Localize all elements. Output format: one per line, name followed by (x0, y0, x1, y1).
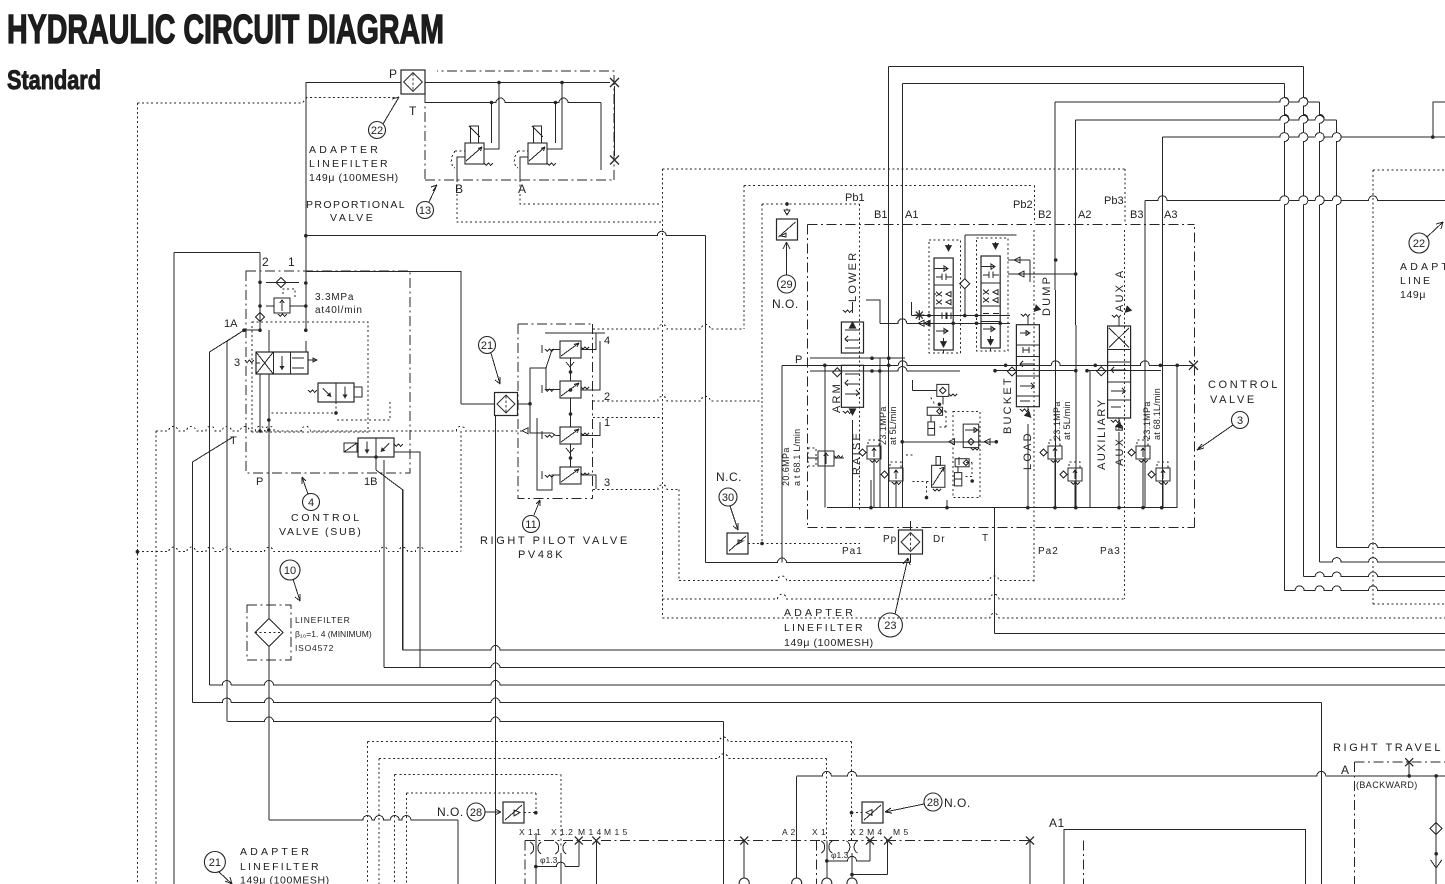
pilot supply wire (460, 271, 462, 404)
svg-text:22: 22 (1413, 238, 1425, 250)
svg-text:30: 30 (722, 492, 734, 504)
mid rail wire (902, 441, 996, 443)
svg-text:X 1: X 1 (812, 827, 826, 837)
node junction dot (785, 202, 789, 206)
svg-text:LINEFILTER: LINEFILTER (309, 158, 390, 170)
plug X top (610, 78, 619, 87)
ARM spool (841, 365, 863, 416)
leader 29 (783, 242, 790, 275)
leader 4 (302, 477, 308, 494)
svg-text:B3: B3 (1130, 209, 1143, 221)
solenoid valve 29 N.O. (777, 219, 798, 240)
svg-text:149μ (100MESH): 149μ (100MESH) (240, 875, 330, 884)
proportional solenoid valve B (451, 126, 493, 168)
svg-text:HYDRAULIC CIRCUIT DIAGRAM: HYDRAULIC CIRCUIT DIAGRAM (7, 6, 444, 52)
svg-text:X 1.1: X 1.1 (519, 827, 541, 837)
wire N.C. pilot (dashed) (748, 543, 762, 545)
svg-text:Pb1: Pb1 (845, 192, 865, 204)
wire A2 (1075, 120, 1077, 325)
svg-text:23.1MPa: 23.1MPa (1052, 401, 1062, 440)
left dotted rails (136, 103, 138, 884)
manifold X2 to M5 (851, 853, 853, 878)
plug X right (610, 156, 619, 165)
svg-text:4: 4 (308, 497, 314, 509)
wire BUCKET AUX column verticals (1089, 371, 1091, 508)
wire spool mid connect (dashed) (269, 402, 336, 413)
svg-text:VALVE: VALVE (1210, 394, 1257, 406)
wire valve B ports (484, 83, 499, 150)
leader 30 (730, 506, 738, 530)
throttle asterisk (914, 310, 924, 320)
svg-text:RIGHT PILOT VALVE: RIGHT PILOT VALVE (480, 535, 630, 547)
wire ARM column verticals (824, 365, 826, 507)
bus wire y667 (384, 663, 1445, 668)
svg-text:A: A (518, 182, 526, 196)
svg-text:Pa2: Pa2 (1038, 546, 1059, 557)
svg-text:Pp: Pp (883, 534, 897, 545)
svg-text:at 5L/min: at 5L/min (888, 406, 898, 445)
mid dotted box (953, 412, 980, 498)
arrow travel (1431, 860, 1442, 868)
svg-text:149μ: 149μ (1400, 289, 1426, 301)
callout circle 23 (878, 613, 902, 637)
svg-text:23: 23 (884, 620, 896, 632)
wire spool bottoms (853, 420, 1120, 508)
callout circle 28 right (924, 793, 942, 811)
pilot ports frame (596, 332, 605, 334)
svg-text:PROPORTIONAL: PROPORTIONAL (306, 199, 406, 211)
mid reducing valve 1 (927, 407, 946, 435)
adapter line filter 22 (P) (401, 70, 425, 94)
svg-text:X 1.2: X 1.2 (551, 827, 573, 837)
svg-text:at 5L/min: at 5L/min (1062, 401, 1072, 440)
wire 28r pilot dashed (850, 811, 854, 815)
center bypass spool 1 (dotted) (929, 240, 961, 353)
port check valves lower (859, 440, 903, 507)
relief RAISE 20.6MPa (808, 448, 844, 466)
port circle X2 (847, 878, 857, 884)
wire 1B spool to right (394, 452, 420, 668)
solenoid valve 28 N.O. right (862, 802, 883, 823)
pilot dotted box Pb2 path (743, 186, 745, 329)
wire 1A diagonals to left rail (210, 330, 245, 352)
svg-text:A3: A3 (1164, 209, 1177, 221)
callout circle 10 (280, 560, 300, 580)
svg-text:11: 11 (525, 519, 536, 531)
leader 21 (491, 353, 500, 384)
pilot valve internals (530, 333, 596, 490)
wire 28 pilot dashed (524, 812, 536, 814)
wire center tops (965, 235, 1017, 279)
wire B3 (1145, 196, 1445, 201)
svg-text:LINEFILTER: LINEFILTER (295, 615, 351, 625)
svg-text:LINEFILTER: LINEFILTER (240, 861, 321, 873)
dashed Pa1 drop (678, 489, 680, 580)
svg-text:at40l/min: at40l/min (315, 305, 363, 316)
wire T down (993, 508, 995, 634)
check valve P lower (833, 368, 842, 377)
control valve boundary (dash-dot) (808, 224, 1195, 226)
leader 28 left (485, 809, 501, 815)
wire port1 into box (305, 272, 307, 331)
orifice X2 (847, 841, 858, 853)
DUMP-BUCKET spool (1016, 304, 1041, 420)
dotted pilot return line (137, 547, 460, 552)
AUX spool (1108, 305, 1133, 431)
bus wire y685 (210, 681, 1445, 686)
pump box corner top right (1433, 102, 1445, 137)
svg-text:P: P (795, 354, 802, 366)
callout circle 21 (479, 337, 496, 354)
callout circle 30 (719, 488, 737, 506)
svg-text:ADAPT: ADAPT (1400, 261, 1445, 273)
svg-text:149μ (100MESH): 149μ (100MESH) (309, 172, 399, 184)
wire drop x495 (495, 416, 497, 884)
svg-text:A1: A1 (1049, 816, 1065, 830)
bus wire y721 (227, 717, 723, 722)
svg-text:M 1 4: M 1 4 (578, 827, 602, 837)
svg-text:N.O.: N.O. (772, 297, 799, 311)
svg-text:CONTROL: CONTROL (1208, 379, 1280, 391)
dash-dot A1 (1029, 841, 1031, 884)
callout circle 28 left (467, 803, 485, 821)
svg-text:28: 28 (927, 797, 939, 809)
port check valves aux (1128, 440, 1170, 507)
pilot dotted box inside sub (252, 322, 368, 432)
check valve (266, 281, 299, 283)
wire P supply top (306, 82, 402, 84)
wire A2 rail (797, 771, 1445, 776)
svg-text:φ1.3: φ1.3 (831, 850, 849, 860)
dashed T path (661, 553, 663, 618)
svg-text:T: T (230, 435, 237, 447)
center bypass spool 2 (dotted) (977, 238, 1009, 351)
leader 11 (534, 500, 540, 515)
svg-text:A: A (1341, 763, 1349, 777)
bus wire y702 (193, 698, 1322, 703)
bottom dotted box lines (367, 737, 851, 741)
svg-text:AUXILIARY: AUXILIARY (1096, 398, 1108, 470)
svg-text:CONTROL: CONTROL (291, 512, 362, 524)
plug X P rail end (1189, 361, 1198, 370)
dotted long pilot lines left (156, 426, 522, 431)
leader 13 (429, 185, 437, 202)
solenoid valve 29 pilot (dashed) (786, 204, 788, 215)
svg-text:21: 21 (481, 340, 493, 352)
svg-text:ADAPTER: ADAPTER (240, 846, 312, 858)
wire B2 A2 drops (1055, 290, 1057, 508)
manifold X1 to M4 (826, 841, 828, 878)
check valve P bucket (1007, 367, 1016, 376)
svg-text:2: 2 (262, 255, 269, 269)
node 1A junction (242, 328, 246, 332)
A1 box (1064, 829, 1305, 884)
svg-text:149μ (100MESH): 149μ (100MESH) (784, 637, 874, 649)
svg-text:B: B (455, 182, 463, 196)
wire 1B down (375, 457, 377, 470)
wire T return (425, 98, 601, 103)
svg-text:3.3MPa: 3.3MPa (315, 292, 354, 303)
callout circle 22 (369, 122, 386, 139)
check valve 1A (256, 313, 265, 322)
wire spool3 connections (256, 363, 260, 431)
svg-text:3: 3 (1237, 415, 1243, 427)
pilot dotted box Pb1 path (761, 204, 763, 401)
right travel boundary dash-dot (1355, 761, 1445, 763)
wire B2 (1054, 102, 1056, 290)
plug X marks on rail (575, 837, 583, 845)
svg-text:20.6MPa: 20.6MPa (781, 447, 791, 486)
svg-text:10: 10 (284, 565, 296, 577)
svg-text:X 2 M 4: X 2 M 4 (850, 827, 883, 837)
wire filter10 to bottom (269, 816, 458, 821)
relief valve 3.3MPa (274, 298, 290, 313)
left rail wires (173, 253, 175, 884)
check valve P aux (1097, 367, 1106, 376)
wire center to DUMP ports (1008, 259, 1030, 261)
leader 10 (293, 579, 300, 601)
svg-text:29: 29 (780, 279, 792, 291)
valve sub spool mid (308, 383, 362, 402)
svg-text:Pa3: Pa3 (1100, 546, 1121, 557)
control valve sub boundary (dash-dot) (246, 271, 410, 473)
wire backward port (1408, 762, 1410, 776)
callout circle 22 right (1409, 233, 1429, 253)
wire X drop 744 (743, 841, 745, 878)
svg-text:T: T (982, 533, 988, 544)
svg-text:Pb2: Pb2 (1013, 199, 1033, 211)
svg-text:22: 22 (371, 125, 383, 137)
svg-text:VALVE: VALVE (330, 212, 375, 224)
svg-text:P: P (256, 476, 263, 488)
mid pressure compensator valve (913, 380, 958, 406)
port circle 744 (739, 878, 749, 884)
svg-text:Dr: Dr (933, 534, 946, 545)
proportional solenoid valve A (514, 126, 556, 168)
wire through filter 10 (268, 473, 270, 618)
pilot port dotted wires (593, 325, 744, 330)
callout circle 11 (523, 516, 540, 533)
wire B1 (888, 67, 890, 331)
svg-text:φ1.3: φ1.3 (540, 855, 558, 865)
proportional valve boundary (dash-dot) (424, 93, 426, 180)
dashed Pa3 path (1124, 230, 1126, 599)
leader 3 (1197, 425, 1233, 450)
svg-text:B2: B2 (1038, 209, 1051, 221)
svg-text:at 68.1L/min: at 68.1L/min (1152, 388, 1162, 440)
orifice X1.1 (530, 842, 541, 854)
leader 22 right (1427, 222, 1443, 237)
wire A2 drop (796, 777, 798, 878)
port check valves bucket (1040, 440, 1082, 507)
check valve travel (1430, 823, 1442, 835)
svg-text:LINEFILTER: LINEFILTER (784, 622, 865, 634)
svg-text:LINE: LINE (1400, 275, 1432, 287)
svg-text:Standard: Standard (7, 65, 101, 95)
valve body bottom wire (827, 507, 1178, 509)
svg-text:1: 1 (604, 417, 610, 429)
wire T drop to A/B boxes (dotted) (457, 180, 662, 222)
svg-text:Pa1: Pa1 (842, 546, 863, 557)
svg-text:PV48K: PV48K (518, 549, 565, 561)
wire valve A ports (547, 83, 562, 150)
wire Pp filter (910, 554, 912, 563)
svg-text:3: 3 (234, 357, 240, 369)
svg-text:N.O.: N.O. (944, 796, 971, 810)
svg-text:A2: A2 (1078, 209, 1091, 221)
diamond check center (964, 260, 966, 279)
wire main supply to control valve (306, 231, 706, 236)
line filter 10 boundary (247, 605, 291, 660)
pilot line filter 21 (495, 393, 518, 416)
mid solenoid valve (932, 457, 945, 492)
adapter line filter 23 (899, 530, 923, 554)
port circle X1 (822, 878, 832, 884)
svg-text:P: P (389, 67, 397, 81)
plug X right travel (1405, 758, 1413, 766)
valve sub spool 3 (245, 352, 317, 374)
leader 22 (383, 97, 399, 124)
svg-text:ADAPTER: ADAPTER (784, 607, 856, 619)
solenoid valve 30 N.C. (727, 533, 748, 554)
solenoid valve 28 N.O. left (503, 802, 524, 823)
callout circle 13 (417, 202, 434, 219)
svg-text:LOWER: LOWER (847, 251, 859, 302)
leader 23 (895, 558, 910, 614)
mid dashed links (913, 481, 932, 483)
wire into filter (461, 403, 495, 405)
svg-text:β₁₀=1. 4 (MINIMUM): β₁₀=1. 4 (MINIMUM) (295, 629, 372, 639)
svg-text:DUMP: DUMP (1041, 275, 1053, 316)
dash-dot stub X1 (816, 841, 818, 884)
svg-text:(BACKWARD): (BACKWARD) (1356, 780, 1418, 790)
wire A3 (1163, 133, 1445, 138)
wire X1.2 M1.5 drops (560, 853, 562, 884)
callout circle 29 (778, 275, 796, 293)
svg-text:T: T (409, 104, 417, 118)
svg-text:BUCKET: BUCKET (1002, 376, 1014, 434)
svg-text:ISO4572: ISO4572 (295, 643, 334, 653)
wire lower to center rails (912, 315, 1011, 317)
LOWER spool (841, 302, 863, 353)
pilot valve boundary (dash-dot) (518, 324, 593, 499)
wire A1 (902, 84, 904, 359)
svg-text:3: 3 (604, 477, 610, 489)
leader 21 bottom (219, 872, 232, 884)
dotted boundary top-left (137, 98, 397, 103)
callout circle 21 bottom (204, 852, 225, 873)
svg-text:ARM: ARM (831, 382, 843, 413)
orifice X1.2 (555, 842, 566, 854)
svg-text:ADAPTER: ADAPTER (309, 144, 381, 156)
svg-text:N.C.: N.C. (716, 470, 742, 484)
valve sub spool 1B (344, 438, 403, 457)
svg-text:28: 28 (470, 807, 482, 819)
svg-text:21: 21 (209, 857, 221, 869)
orifice X1 (821, 841, 832, 853)
manifold X1.1 to M1.4 (535, 833, 537, 884)
wire P rail (782, 361, 1194, 366)
port circle A2 (792, 878, 802, 884)
leader 28 right (885, 804, 924, 813)
wire port2 line (174, 253, 260, 331)
wire B1 A1 into valves (888, 330, 890, 508)
dotted box right filter (1373, 169, 1445, 171)
bus wire y650 (403, 646, 1445, 651)
callout circle 3 (1232, 412, 1249, 429)
svg-text:Pb3: Pb3 (1104, 195, 1124, 207)
svg-text:1A: 1A (224, 318, 238, 330)
plug X A1 (1026, 837, 1034, 845)
svg-text:23.1MPa: 23.1MPa (1142, 401, 1152, 440)
svg-text:RIGHT TRAVEL: RIGHT TRAVEL (1333, 742, 1443, 754)
dashed Pa2 path (1033, 230, 1035, 582)
svg-text:B1: B1 (874, 209, 887, 221)
pilot manifold dash-dot rail (525, 840, 1030, 842)
dotted drops (535, 793, 537, 813)
svg-text:M 1 5: M 1 5 (604, 827, 628, 837)
svg-text:VALVE (SUB): VALVE (SUB) (279, 526, 363, 538)
svg-text:A1: A1 (905, 209, 918, 221)
svg-text:1: 1 (288, 255, 295, 269)
svg-text:4: 4 (604, 335, 610, 347)
svg-text:1B: 1B (364, 476, 377, 488)
wire P vert (781, 365, 783, 562)
wire from P filter down (line 1) (305, 83, 307, 272)
callout circle 4 (303, 494, 320, 511)
outer pilot dotted box top (662, 168, 1125, 170)
svg-text:M 5: M 5 (893, 827, 909, 837)
line filter 10 diamond (255, 619, 283, 647)
wire travel motor (1435, 776, 1437, 884)
svg-text:13: 13 (419, 205, 431, 217)
svg-text:a t 68.1 L/min: a t 68.1 L/min (792, 429, 802, 486)
wire P parallel rails (810, 357, 905, 359)
svg-text:N.O.: N.O. (437, 805, 464, 819)
svg-text:A 2: A 2 (782, 827, 796, 837)
